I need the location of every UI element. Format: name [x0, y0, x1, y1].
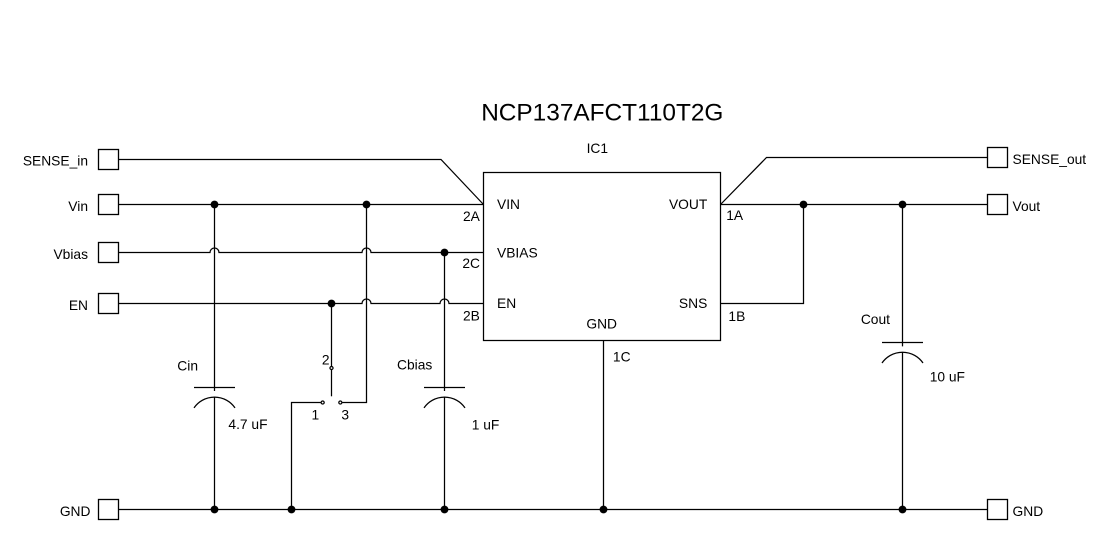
junction EN / switch pin 2 [328, 300, 336, 308]
wire Vin net [119, 204, 484, 206]
switch pin 1 contact circle [321, 401, 324, 404]
svg-text:Vbias: Vbias [53, 247, 88, 262]
port SENSE_out terminal [988, 148, 1008, 168]
svg-text:VIN: VIN [497, 197, 520, 212]
wire VOUT net [721, 204, 988, 206]
svg-text:2C: 2C [462, 256, 480, 271]
port Vin terminal [99, 195, 119, 215]
port SENSE_in terminal [99, 150, 119, 170]
svg-text:Vout: Vout [1013, 199, 1041, 214]
svg-text:4.7 uF: 4.7 uF [228, 417, 267, 432]
svg-text:3: 3 [341, 407, 349, 422]
junction GND / Cbias [441, 506, 449, 514]
svg-text:1A: 1A [726, 208, 744, 223]
junction GND / Cin [211, 506, 219, 514]
wire Cout top lead [902, 205, 904, 347]
svg-text:1 uF: 1 uF [472, 417, 500, 432]
junction GND / switch pin 1 [288, 506, 296, 514]
junction VOUT / Cout [899, 201, 907, 209]
svg-text:2B: 2B [463, 308, 480, 323]
wire Vin to switch pin 3 riser [342, 205, 366, 403]
svg-text:2A: 2A [463, 209, 481, 224]
svg-text:Cbias: Cbias [397, 358, 432, 373]
junction VOUT / SNS [800, 201, 808, 209]
svg-text:1B: 1B [728, 309, 745, 324]
switch SW1 blade [331, 370, 333, 397]
svg-text:Cin: Cin [177, 358, 198, 373]
svg-text:Cout: Cout [861, 312, 890, 327]
svg-text:SNS: SNS [679, 296, 707, 311]
wire GND rail [119, 509, 988, 511]
wire SNS to VOUT net [721, 205, 804, 304]
wire EN to switch pin 2 [331, 304, 333, 367]
svg-text:IC1: IC1 [587, 141, 608, 156]
svg-text:EN: EN [69, 298, 88, 313]
capacitor Cbias plates [424, 388, 465, 408]
svg-text:VBIAS: VBIAS [497, 246, 538, 261]
switch pin 3 contact circle [339, 401, 342, 404]
svg-text:SENSE_out: SENSE_out [1013, 152, 1087, 167]
wire Cbias bottom lead [444, 397, 446, 509]
svg-text:NCP137AFCT110T2G: NCP137AFCT110T2G [481, 100, 723, 127]
wire Cbias top lead [444, 253, 446, 392]
junction Vin / Cin [211, 201, 219, 209]
capacitor Cin plates [194, 388, 235, 408]
port Vbias terminal [99, 243, 119, 263]
wire Cin bottom lead [214, 397, 216, 509]
svg-text:GND: GND [60, 504, 91, 519]
capacitor Cout plates [882, 343, 923, 364]
wire Cout bottom lead [902, 352, 904, 509]
svg-text:EN: EN [497, 296, 516, 311]
svg-text:GND: GND [1013, 504, 1044, 519]
svg-text:2: 2 [322, 352, 330, 367]
junction GND / Cout [899, 506, 907, 514]
wire VOUT to SENSE_out [721, 158, 988, 205]
wire Vbias net with hops [119, 248, 484, 253]
junction Vbias / Cbias [441, 249, 449, 257]
switch pin 2 contact circle [330, 366, 333, 369]
svg-text:GND: GND [586, 317, 617, 332]
wire switch pin 1 to GND [292, 403, 321, 510]
wire IC GND pin to rail [603, 341, 605, 510]
junction GND / IC [600, 506, 608, 514]
svg-text:VOUT: VOUT [669, 197, 708, 212]
junction Vin / pin3 riser [363, 201, 371, 209]
wire Cin top lead [214, 205, 216, 392]
wire EN net with hops [119, 299, 484, 304]
port GND left terminal [99, 500, 119, 520]
port EN terminal [99, 294, 119, 314]
op-amp/regulator IC1 body [484, 173, 721, 341]
wire SENSE_in to VIN pin [119, 160, 484, 205]
svg-text:SENSE_in: SENSE_in [23, 154, 88, 169]
svg-text:Vin: Vin [68, 199, 88, 214]
port Vout terminal [988, 195, 1008, 215]
svg-text:1C: 1C [613, 350, 631, 365]
svg-text:1: 1 [311, 407, 319, 422]
svg-text:10 uF: 10 uF [930, 370, 965, 385]
port GND right terminal [988, 500, 1008, 520]
